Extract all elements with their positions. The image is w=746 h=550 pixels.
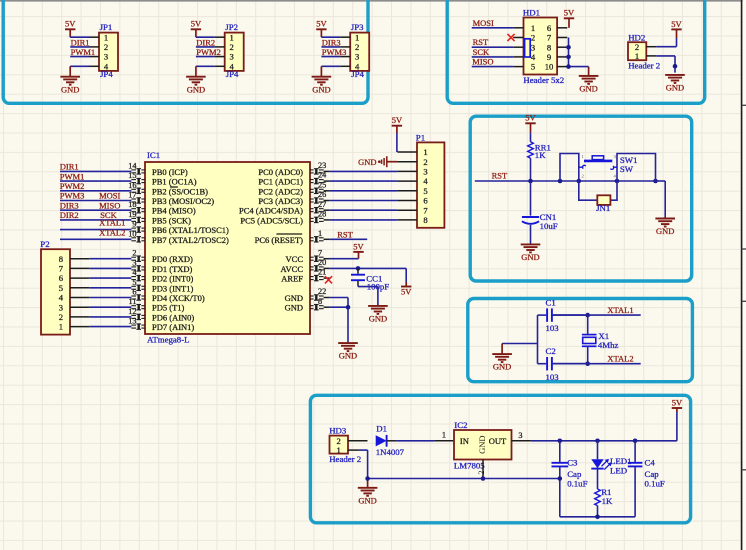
power port GND at P1 pin 2 <box>358 156 397 167</box>
wire to jumper JN1 <box>579 181 617 200</box>
net label DIR1 at IC1 <box>60 162 79 172</box>
svg-text:Header 2: Header 2 <box>329 454 361 464</box>
svg-text:5: 5 <box>132 278 136 287</box>
svg-text:3: 3 <box>230 52 234 62</box>
svg-text:LED: LED <box>610 465 627 475</box>
svg-text:PB0 (ICP): PB0 (ICP) <box>152 167 188 177</box>
wire HD1 pins 7-10 ground bus <box>569 38 589 76</box>
junction dot IC1 GND <box>346 305 351 310</box>
svg-text:Header 2: Header 2 <box>628 60 660 70</box>
IC1 right pins PC0-PC5 (stubs, numbers, names) <box>239 161 329 225</box>
ground rail wire <box>368 479 560 488</box>
svg-text:8: 8 <box>423 215 427 225</box>
svg-text:4: 4 <box>355 61 360 71</box>
net label PWM1 at IC1 <box>60 171 85 181</box>
svg-text:PD7 (AIN1): PD7 (AIN1) <box>152 322 194 332</box>
svg-text:XTAL2: XTAL2 <box>607 354 633 364</box>
svg-text:C3: C3 <box>567 458 578 468</box>
wire HD3 pin 1 to ground rail <box>359 450 368 478</box>
svg-text:GND: GND <box>477 435 487 453</box>
svg-text:GND: GND <box>656 226 674 236</box>
svg-text:17: 17 <box>128 191 136 200</box>
wire XTAL1 <box>553 314 641 316</box>
svg-text:10uF: 10uF <box>540 221 558 231</box>
wire HD2 pin 1 to ground <box>656 56 675 73</box>
svg-text:25: 25 <box>318 180 326 189</box>
svg-text:GND: GND <box>187 84 205 94</box>
wire RST from PC6 <box>329 238 367 240</box>
wire 5V to HD2 pin 2 <box>656 38 676 47</box>
svg-text:PC1 (ADC1): PC1 (ADC1) <box>258 177 303 187</box>
net label PWM2 at IC1 <box>60 181 85 191</box>
svg-text:PD0 (RXD): PD0 (RXD) <box>152 254 193 264</box>
svg-text:19: 19 <box>128 210 136 219</box>
net label RST at HD1 <box>473 37 489 47</box>
svg-text:GND: GND <box>493 362 511 372</box>
power 5V P1 <box>392 115 403 133</box>
svg-text:6: 6 <box>132 288 136 297</box>
net label DIR1 <box>71 37 90 47</box>
wire net row PB4 <box>60 209 131 211</box>
IC1 pin AVCC <box>280 258 329 274</box>
ground GND CN1 <box>521 244 541 262</box>
overline SS on PB2 pin name <box>170 186 178 188</box>
svg-text:PD5 (T1): PD5 (T1) <box>152 303 185 313</box>
svg-text:GND: GND <box>358 157 376 167</box>
wire DIR1 to JP1 pin 2 <box>70 46 89 48</box>
power 5V VCC <box>353 241 364 258</box>
svg-text:PD3 (INT1): PD3 (INT1) <box>152 283 193 293</box>
LED LED1 <box>591 441 631 489</box>
connector JP1 <box>89 22 118 79</box>
svg-text:PWM2: PWM2 <box>196 47 221 57</box>
svg-text:2: 2 <box>132 249 136 258</box>
power 5V output <box>672 397 683 408</box>
svg-text:1: 1 <box>230 32 234 42</box>
svg-text:GND: GND <box>358 495 376 505</box>
IC1 left pins PB0-PB7 (stubs, numbers, names) <box>128 161 229 244</box>
connector P2 <box>40 239 89 334</box>
svg-text:2: 2 <box>423 157 427 167</box>
svg-text:DIR1: DIR1 <box>71 37 90 47</box>
svg-text:1N4007: 1N4007 <box>376 447 405 457</box>
ground GND JP1 <box>60 77 80 95</box>
svg-text:C1: C1 <box>546 297 556 307</box>
wire JP1 pin 4 to ground <box>70 66 89 76</box>
IC2 pin 1 stub <box>435 431 454 441</box>
svg-text:IC2: IC2 <box>454 420 467 430</box>
svg-text:DIR2: DIR2 <box>196 37 215 47</box>
svg-text:9: 9 <box>547 52 551 62</box>
svg-text:1: 1 <box>635 51 639 61</box>
svg-text:GND: GND <box>285 303 303 313</box>
power 5V reset <box>525 113 536 133</box>
IC1 pin GND 8 <box>285 297 330 313</box>
connector P1 <box>397 132 444 227</box>
wire XTAL2 <box>553 363 641 365</box>
svg-text:5V: 5V <box>191 19 202 29</box>
margin area right of sheet border <box>743 0 746 550</box>
wire PWM2 to JP2 pin 3 <box>196 56 215 58</box>
svg-text:RST: RST <box>492 171 508 181</box>
svg-text:13: 13 <box>128 317 136 326</box>
connector JP3 <box>340 22 369 79</box>
svg-text:2: 2 <box>477 470 486 474</box>
svg-text:XTAL1: XTAL1 <box>99 218 125 228</box>
jumper JN1 <box>596 195 610 213</box>
net label MISO <box>472 57 493 67</box>
svg-text:8: 8 <box>547 42 551 52</box>
junction dots output rail <box>558 439 638 444</box>
svg-text:22: 22 <box>318 287 326 296</box>
net label PWM2 <box>196 47 221 57</box>
IC IC1 ATmega8-L body <box>145 150 310 345</box>
svg-text:4: 4 <box>423 176 428 186</box>
connector HD1 <box>513 8 567 86</box>
svg-text:XTAL1: XTAL1 <box>607 305 633 315</box>
svg-text:3: 3 <box>531 42 535 52</box>
wire net row PB6 <box>60 229 131 231</box>
svg-text:PWM3: PWM3 <box>60 191 85 201</box>
svg-text:JP1: JP1 <box>100 22 113 32</box>
svg-text:20: 20 <box>318 258 326 267</box>
wire 5V to P1 pin 1 <box>396 133 398 152</box>
svg-text:IN: IN <box>460 436 469 446</box>
svg-text:PWM1: PWM1 <box>71 47 96 57</box>
svg-text:3: 3 <box>423 167 427 177</box>
wire VCC to 5V <box>329 258 358 260</box>
svg-text:2: 2 <box>531 33 535 43</box>
svg-text:5V: 5V <box>392 115 403 125</box>
section frame: power supply <box>310 395 690 523</box>
svg-text:26: 26 <box>318 190 326 199</box>
svg-text:3: 3 <box>355 52 359 62</box>
junction dot IC2 GND pin <box>481 476 486 481</box>
svg-text:5: 5 <box>531 62 535 72</box>
net label XTAL1 crystal <box>607 305 633 315</box>
regulator IC2 LM7805 <box>454 420 531 479</box>
svg-text:PB4 (MISO): PB4 (MISO) <box>152 206 196 216</box>
wire RST to CN1 <box>530 181 532 216</box>
svg-text:4: 4 <box>531 52 536 62</box>
power 5V JP1 <box>65 19 76 38</box>
svg-text:4: 4 <box>59 293 64 303</box>
svg-text:1: 1 <box>318 229 322 238</box>
svg-text:1: 1 <box>423 147 427 157</box>
svg-text:MISO: MISO <box>99 200 120 210</box>
svg-text:5V: 5V <box>65 19 76 29</box>
crystal X1 4Mhz <box>582 315 619 364</box>
svg-text:103: 103 <box>546 323 560 333</box>
power 5V HD1 <box>564 8 575 28</box>
wire MISO to HD1 pin 5 <box>472 66 514 68</box>
svg-text:8: 8 <box>59 254 63 264</box>
net label XTAL2 at IC1 <box>99 227 125 237</box>
svg-text:GND: GND <box>369 314 387 324</box>
svg-text:OUT: OUT <box>489 436 507 446</box>
svg-text:6: 6 <box>59 273 64 283</box>
junction dots HD1 bus <box>566 45 571 69</box>
power 5V JP2 <box>191 19 202 38</box>
svg-text:1: 1 <box>59 322 63 332</box>
IC1 pin VCC <box>286 248 330 264</box>
wires P2 to IC1 PD pins <box>89 259 131 327</box>
switch SW1 push button <box>579 154 638 179</box>
svg-text:3: 3 <box>104 52 108 62</box>
capacitor C4 0.1uF <box>628 441 665 517</box>
ground GND SW1 <box>655 219 675 237</box>
svg-text:6: 6 <box>423 196 428 206</box>
wire JP3 pin 4 to ground <box>321 66 340 76</box>
net label PWM1 <box>71 47 96 57</box>
wire RST to HD1 pin 3 <box>472 46 514 48</box>
svg-text:SW: SW <box>620 164 634 174</box>
svg-text:7: 7 <box>547 33 552 43</box>
net label PWM3 at IC1 <box>60 191 85 201</box>
net label XTAL2 crystal <box>607 354 633 364</box>
svg-text:DIR3: DIR3 <box>60 200 79 210</box>
net label RST reset circuit <box>492 171 508 181</box>
wire AVCC to 5V <box>329 268 406 286</box>
capacitor C1 103 <box>538 297 588 333</box>
svg-text:PC2 (ADC2): PC2 (ADC2) <box>258 186 303 196</box>
svg-text:3: 3 <box>518 431 522 440</box>
svg-text:16: 16 <box>128 181 136 190</box>
svg-text:P1: P1 <box>416 132 425 142</box>
svg-text:IC1: IC1 <box>147 150 160 160</box>
svg-text:0.1uF: 0.1uF <box>645 479 665 489</box>
wire net row PB7 <box>60 238 131 240</box>
svg-text:PB7 (XTAL2/TOSC2): PB7 (XTAL2/TOSC2) <box>152 235 229 245</box>
svg-text:5V: 5V <box>316 19 327 29</box>
svg-text:GND: GND <box>339 351 357 361</box>
svg-text:DIR1: DIR1 <box>60 162 79 172</box>
svg-text:ATmega8-L: ATmega8-L <box>147 335 190 345</box>
svg-text:VCC: VCC <box>286 254 304 264</box>
svg-text:PB3 (MOSI/OC2): PB3 (MOSI/OC2) <box>152 196 214 206</box>
svg-text:5: 5 <box>423 186 427 196</box>
svg-text:GND: GND <box>312 84 330 94</box>
wire net row PB5 <box>60 219 131 221</box>
svg-text:RST: RST <box>473 37 489 47</box>
svg-text:5V: 5V <box>672 397 683 407</box>
net label DIR2 at IC1 <box>60 210 79 220</box>
resistor R1 1K <box>595 487 613 517</box>
svg-text:PD1 (TXD): PD1 (TXD) <box>152 264 193 274</box>
svg-text:23: 23 <box>318 161 326 170</box>
wire RST node <box>475 180 656 182</box>
svg-text:4: 4 <box>104 61 109 71</box>
svg-text:C4: C4 <box>645 458 656 468</box>
wire JP2 pin 4 to ground <box>196 66 215 76</box>
IC1 pin PC6 /RESET <box>255 229 330 245</box>
svg-text:1: 1 <box>355 32 359 42</box>
wire PWM3 to JP3 pin 3 <box>321 56 340 58</box>
power 5V AVCC (inverted) <box>401 287 412 297</box>
svg-text:1K: 1K <box>602 496 613 506</box>
screen top edge line <box>0 0 746 2</box>
svg-text:PWM3: PWM3 <box>322 47 347 57</box>
wire SCK to HD1 pin 4 <box>472 56 514 58</box>
wire net row PB0 <box>60 170 131 172</box>
wire IC2 OUT rail <box>531 408 677 441</box>
capacitor CC1 <box>351 268 389 291</box>
wire switch right loop <box>617 154 656 182</box>
wire 5V to JP3 pin 1 <box>321 36 340 38</box>
ground GND IC1 <box>338 343 358 361</box>
svg-text:2: 2 <box>355 42 359 52</box>
junction dot C3 ground rail <box>558 476 563 481</box>
wire SW1 to ground <box>656 181 666 218</box>
wire MOSI to HD1 pin 1 <box>472 27 514 29</box>
section frame: reset circuit <box>470 116 692 281</box>
svg-text:GND: GND <box>579 84 597 94</box>
svg-text:10: 10 <box>128 229 136 238</box>
resistor RR1 1K <box>528 133 551 181</box>
svg-text:PD6 (AIN0): PD6 (AIN0) <box>152 312 194 322</box>
svg-text:14: 14 <box>128 161 137 170</box>
net label RST at IC1 <box>337 229 353 239</box>
junction dots crystal <box>585 313 590 366</box>
junction dot R1 bottom <box>595 515 600 520</box>
ground GND crystal <box>492 354 512 372</box>
svg-text:6: 6 <box>547 23 552 33</box>
wire D1 to IC2 IN <box>396 440 434 442</box>
svg-text:2: 2 <box>104 42 108 52</box>
svg-text:7: 7 <box>59 264 64 274</box>
svg-text:21: 21 <box>318 268 326 277</box>
svg-text:24: 24 <box>318 171 327 180</box>
no-ERC marker AREF <box>325 276 332 283</box>
wire 5V to JP2 pin 1 <box>196 36 215 38</box>
svg-text:18: 18 <box>128 200 136 209</box>
net label MOSI at IC1 <box>99 191 120 201</box>
IC1 left pins PD0-PD7 (stubs, numbers, names) <box>128 249 205 332</box>
svg-text:SCK: SCK <box>473 47 490 57</box>
svg-text:DIR2: DIR2 <box>60 210 79 220</box>
ground GND CC1 <box>368 306 388 324</box>
svg-text:C2: C2 <box>546 346 556 356</box>
capacitor C3 0.1uF <box>552 441 588 517</box>
svg-text:PC5 (ADC5/SCL): PC5 (ADC5/SCL) <box>240 215 303 225</box>
wire switch left loop <box>560 154 579 182</box>
net label MOSI <box>473 18 494 28</box>
svg-text:11: 11 <box>129 297 137 306</box>
section frame: ISP header <box>447 0 705 103</box>
junction dot AVCC / CC1 <box>356 266 361 271</box>
svg-text:PD4 (XCK/T0): PD4 (XCK/T0) <box>152 293 205 303</box>
svg-text:PD2 (INT0): PD2 (INT0) <box>152 274 193 284</box>
svg-text:HD1: HD1 <box>523 8 540 18</box>
svg-text:PB2 (SS/OC1B): PB2 (SS/OC1B) <box>152 186 208 196</box>
svg-text:PC4 (ADC4/SDA): PC4 (ADC4/SDA) <box>239 206 303 216</box>
svg-text:5V: 5V <box>525 113 536 123</box>
svg-text:4Mhz: 4Mhz <box>598 340 619 350</box>
connector HD3 <box>329 426 367 465</box>
IC1 pin GND 22 <box>285 287 330 303</box>
junction dot HD2 ground wire <box>673 64 678 69</box>
svg-text:3: 3 <box>132 258 136 267</box>
svg-text:27: 27 <box>318 200 326 209</box>
wires IC1 PC0-PC5 to P1 pins 3-8 <box>329 171 397 220</box>
ground GND JP3 <box>312 77 332 95</box>
no-ERC marker HD1 pin 2 <box>507 34 514 41</box>
ground GND JP2 <box>186 77 206 95</box>
svg-text:PB5 (SCK): PB5 (SCK) <box>152 215 191 225</box>
svg-text:RST: RST <box>337 229 353 239</box>
svg-text:MOSI: MOSI <box>99 191 120 201</box>
svg-text:PWM2: PWM2 <box>60 181 85 191</box>
IC1 pin AREF <box>281 268 329 284</box>
capacitor C2 103 <box>538 346 588 382</box>
ISP key mark on HD1 <box>525 39 531 57</box>
svg-text:5V: 5V <box>564 8 575 18</box>
wire 5V to JP1 pin 1 <box>70 36 89 38</box>
net label PWM3 <box>322 47 347 57</box>
svg-text:JP3: JP3 <box>351 22 364 32</box>
diode D1 1N4007 <box>376 424 405 458</box>
connector HD2 <box>628 32 660 70</box>
svg-text:2: 2 <box>59 312 63 322</box>
power 5V JP3 <box>316 19 327 38</box>
svg-text:PC6 (RESET): PC6 (RESET) <box>255 235 304 245</box>
capacitor CN1 10uF <box>522 212 558 244</box>
svg-text:1: 1 <box>531 23 535 33</box>
svg-text:28: 28 <box>318 210 326 219</box>
svg-text:2: 2 <box>230 42 234 52</box>
net label DIR2 <box>196 37 215 47</box>
svg-text:PWM1: PWM1 <box>60 171 85 181</box>
svg-text:JN1: JN1 <box>596 203 610 213</box>
net label MISO at IC1 <box>99 200 120 210</box>
svg-text:XTAL2: XTAL2 <box>99 227 125 237</box>
svg-text:AVCC: AVCC <box>280 264 303 274</box>
svg-text:1: 1 <box>442 431 446 440</box>
svg-text:12: 12 <box>128 307 136 316</box>
svg-text:GND: GND <box>61 84 79 94</box>
svg-text:MISO: MISO <box>472 57 493 67</box>
wire bottom rail <box>560 516 635 518</box>
svg-text:5V: 5V <box>353 241 364 251</box>
svg-text:103: 103 <box>546 372 560 382</box>
wire PWM1 to JP1 pin 3 <box>70 56 89 58</box>
svg-text:5V: 5V <box>671 19 682 29</box>
wire net row PB2 <box>60 190 131 192</box>
svg-text:1: 1 <box>104 32 108 42</box>
wire CC1 to ground <box>358 287 378 306</box>
wire DIR2 to JP2 pin 2 <box>196 46 215 48</box>
svg-text:PB6 (XTAL1/TOSC1): PB6 (XTAL1/TOSC1) <box>152 225 229 235</box>
svg-text:8: 8 <box>318 297 322 306</box>
svg-text:1: 1 <box>337 445 341 455</box>
ground GND power input <box>358 488 378 506</box>
svg-text:15: 15 <box>128 171 136 180</box>
svg-text:7: 7 <box>423 205 428 215</box>
svg-text:Header 5x2: Header 5x2 <box>523 75 564 85</box>
sheet border line <box>742 0 746 550</box>
svg-text:1K: 1K <box>535 150 546 160</box>
wire net row PB3 <box>60 200 131 202</box>
net label DIR3 <box>322 37 341 47</box>
net label DIR3 at IC1 <box>60 200 79 210</box>
wire capacitors common leg <box>502 315 537 364</box>
wire net row PB1 <box>60 180 131 182</box>
wire DIR3 to JP3 pin 2 <box>321 46 340 48</box>
svg-text:GND: GND <box>285 293 303 303</box>
svg-text:GND: GND <box>521 252 539 262</box>
svg-text:0.1uF: 0.1uF <box>567 479 587 489</box>
svg-text:D1: D1 <box>376 424 387 434</box>
